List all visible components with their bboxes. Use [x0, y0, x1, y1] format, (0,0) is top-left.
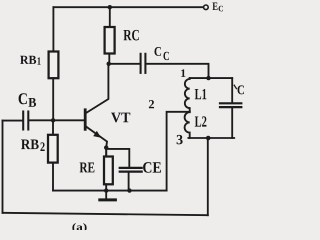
wire emitter branch to CE: [106, 149, 129, 167]
transistor VT base bar: [84, 110, 87, 130]
resistor RB2: [48, 135, 58, 163]
ground symbol: [105, 191, 107, 199]
wire tap 2 feedback: down from coil tap: [167, 112, 190, 191]
capacitor CC: [140, 54, 142, 73]
inductor L1: [185, 78, 190, 112]
label CB: [19, 93, 36, 107]
wire tank bottom rail: [188, 137, 234, 139]
label (a): [72, 223, 86, 233]
label RC: [123, 30, 138, 41]
resistor RE: [104, 157, 113, 185]
wire left branch down to RB1: [52, 7, 54, 51]
resistor RB1: [49, 52, 59, 79]
wire tank top rail: [190, 77, 233, 79]
label EC: [212, 3, 223, 12]
node base junction: [51, 118, 55, 122]
resistor RC: [105, 27, 115, 54]
wire CE bottom: [128, 173, 130, 191]
wire collector to CC: [109, 63, 140, 65]
inductor L2: [185, 112, 190, 138]
transistor VT emitter lead: [86, 127, 107, 157]
label node 1: [181, 69, 185, 77]
wire bottom rail: [3, 213, 208, 215]
accent tick above C label: [234, 85, 236, 88]
label RB1: [20, 56, 40, 65]
terminal EC: [204, 5, 209, 10]
wire RB1 to base node: [52, 78, 54, 120]
node RE ground junction: [104, 188, 108, 192]
wire ground rail: [53, 190, 167, 192]
transistor VT collector lead: [86, 64, 108, 113]
label C: [238, 85, 244, 94]
label RB2: [21, 140, 45, 151]
wire CC to tank node 1: [146, 64, 208, 78]
label node 2: [149, 100, 154, 108]
label VT: [111, 113, 130, 123]
label RE: [80, 163, 95, 173]
capacitor CB: [22, 112, 24, 130]
wire left outer feedback: [2, 121, 4, 213]
wire RE bottom: [105, 184, 107, 190]
node emitter junction: [104, 145, 108, 149]
node 1 junction: [206, 76, 210, 80]
capacitor C: [220, 102, 241, 104]
wire CB left lead: [3, 120, 23, 122]
paper background: [0, 0, 250, 230]
transistor VT emitter arrow: [93, 131, 101, 138]
label CC: [154, 47, 168, 60]
label CE: [143, 162, 161, 173]
wire RC bottom stub: [108, 54, 110, 64]
wire base node to RB2: [52, 120, 54, 135]
capacitor CE: [120, 167, 142, 169]
wire CB to base: [29, 119, 84, 121]
wire RC top stub: [109, 7, 111, 27]
wire RB2 to ground rail: [52, 163, 54, 191]
label node 3: [177, 135, 183, 144]
capacitor C bottom lead: [231, 108, 233, 138]
label L1: [195, 89, 207, 99]
wire emitter to RE: [105, 149, 107, 156]
wire tank bottom to ground loop: [207, 138, 209, 215]
node collector junction: [107, 62, 111, 66]
label L2: [195, 116, 207, 126]
node 3 junction: [206, 136, 211, 141]
node RC top junction: [108, 5, 112, 9]
node CE ground junction: [127, 188, 131, 192]
capacitor C top lead: [231, 78, 233, 102]
wire top supply rail: [53, 6, 202, 8]
